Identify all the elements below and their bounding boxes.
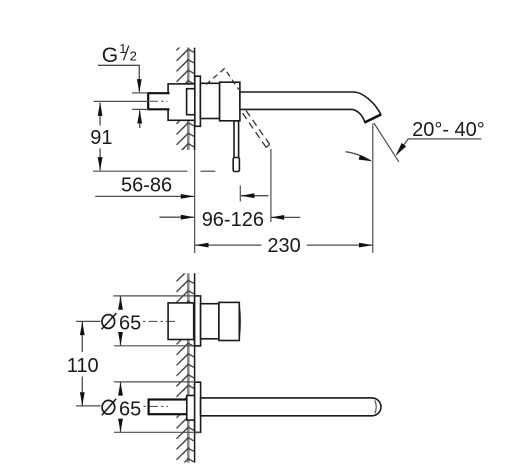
spout body — [240, 92, 381, 122]
upper diameter extension lines — [113, 295, 194, 297]
dimension 230 — [195, 235, 373, 257]
connector piece — [200, 83, 219, 118]
spout angle line — [374, 123, 399, 162]
dimension dia65 lower — [102, 382, 141, 432]
svg-text:110: 110 — [67, 355, 99, 377]
cover plate — [195, 76, 201, 126]
dashed lever (forward position) — [243, 111, 270, 148]
wall gray line (bottom view) — [187, 273, 190, 462]
dimension dia65 upper — [102, 296, 142, 345]
handle centerline — [143, 320, 177, 322]
dimension 110 — [67, 321, 101, 406]
inlet pipe — [148, 93, 169, 109]
spout cover plate — [195, 382, 201, 432]
wall hatching (top view) — [176, 48, 195, 151]
svg-text:56-86: 56-86 — [121, 175, 172, 197]
wall extension line down — [194, 150, 196, 253]
rod extension tick — [239, 186, 241, 202]
handle cover plate — [195, 296, 201, 346]
lower diameter extension lines — [114, 381, 196, 383]
svg-text:65: 65 — [119, 312, 141, 334]
lever extension line — [270, 149, 272, 222]
spout wall connector — [187, 396, 197, 421]
dimension 56-86 — [95, 175, 194, 199]
svg-text:2: 2 — [130, 49, 137, 64]
svg-text:65: 65 — [119, 398, 141, 420]
lever rod tip — [233, 158, 239, 172]
flange block — [168, 84, 195, 120]
wall face line (top view) — [194, 48, 196, 150]
wall gray line (top view) — [187, 48, 190, 151]
pipe top extension line — [132, 92, 148, 94]
spout tube — [201, 398, 381, 416]
spout centerline — [144, 405, 169, 407]
handle concealed body — [168, 303, 194, 340]
svg-text:91: 91 — [90, 127, 112, 149]
small arrow to rod — [241, 195, 269, 197]
20-40 leader — [397, 139, 482, 155]
handle knob bulge — [239, 305, 240, 339]
pipe centerline — [150, 100, 168, 102]
up arrow to pipe bottom — [139, 110, 141, 128]
svg-text:230: 230 — [267, 235, 300, 257]
pipe bottom extension line — [132, 108, 149, 110]
lever rod (down position) — [234, 121, 239, 158]
spout supply pipe — [149, 400, 188, 415]
cartridge housing — [220, 82, 240, 121]
handle neck — [201, 304, 219, 339]
dimension 96-126 — [159, 209, 300, 231]
wall face line (bottom view) — [194, 273, 196, 462]
inner nut — [187, 89, 200, 115]
bottom extension line y171 — [93, 170, 188, 172]
spout mouth — [365, 115, 381, 123]
wall hatching (bottom view) — [176, 273, 195, 462]
angle arc arrow — [346, 152, 371, 161]
dimension G 1/2 label — [98, 41, 142, 93]
dimension 91 — [90, 102, 112, 170]
dashed handle (up position) — [206, 69, 239, 90]
spout tube end arc — [375, 400, 376, 413]
svg-text:20°- 40°: 20°- 40° — [412, 119, 485, 141]
spout tip extension line — [372, 124, 374, 253]
centre extension line y101 — [94, 100, 149, 102]
svg-text:96-126: 96-126 — [202, 209, 264, 231]
svg-text:G: G — [102, 44, 118, 67]
handle knob — [219, 302, 239, 340]
